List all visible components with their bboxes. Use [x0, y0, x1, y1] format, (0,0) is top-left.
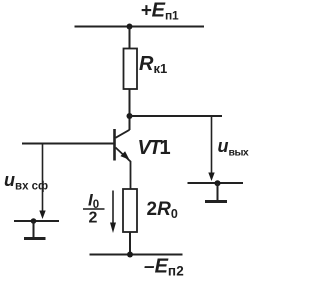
transistor VT1 base bar [113, 129, 116, 161]
node input ground [31, 218, 37, 224]
wire top supply rail [75, 26, 205, 28]
transistor VT1 emitter lead with arrow [116, 148, 131, 190]
label I0/2 fraction [83, 191, 105, 227]
wire 2R0 to bottom rail [129, 232, 131, 255]
arrowhead input [39, 211, 45, 220]
ground bar input long [14, 220, 59, 222]
wire output drop [211, 116, 213, 174]
node junction on -En2 rail [127, 252, 133, 258]
wire rail to Rk1 [129, 27, 131, 50]
wire output ground stub [217, 183, 219, 200]
resistor 2R0 [123, 189, 137, 232]
wire input ground stub [33, 221, 35, 237]
ground bar output short [205, 200, 227, 203]
ground bar output long [188, 182, 244, 184]
node junction on +En1 rail [127, 24, 133, 30]
node output ground [215, 180, 221, 186]
label +En1 [141, 0, 180, 22]
ground bar input short [24, 237, 46, 240]
wire base lead [22, 143, 114, 145]
current arrow I0/2 [112, 191, 114, 227]
node collector junction [127, 113, 133, 119]
wire input drop [42, 144, 44, 214]
transistor VT1 collector lead [116, 130, 130, 138]
svg-text:2: 2 [89, 210, 98, 227]
arrowhead output [208, 173, 214, 182]
resistor Rk1 [124, 49, 138, 90]
wire Rk1 to collector node [129, 89, 131, 130]
svg-text:VT1: VT1 [138, 137, 171, 159]
wire bottom supply rail [90, 254, 183, 256]
wire collector node to output [130, 115, 223, 117]
